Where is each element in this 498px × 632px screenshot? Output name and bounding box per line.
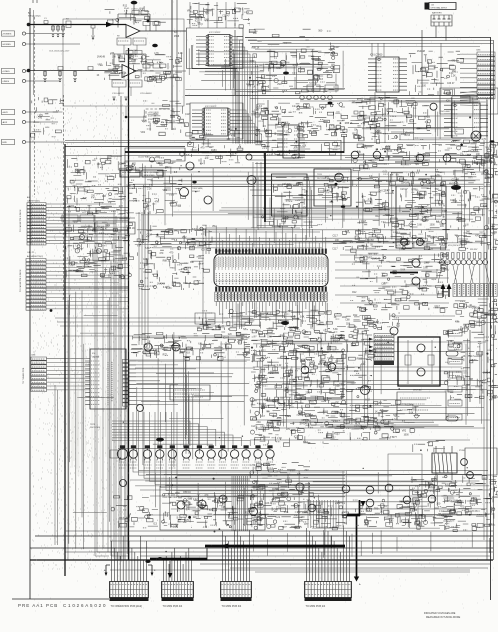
svg-text:SPK(2)-CN(2): SPK(2)-CN(2) <box>28 16 41 18</box>
svg-text:4.7K: 4.7K <box>157 62 162 64</box>
svg-text:C117: C117 <box>316 511 322 513</box>
svg-text:R153: R153 <box>336 129 342 131</box>
svg-text:R77: R77 <box>202 138 207 140</box>
svg-text:C117: C117 <box>276 508 282 510</box>
svg-text:4.7K: 4.7K <box>122 258 127 260</box>
svg-text:2SC: 2SC <box>145 348 150 350</box>
svg-text:C23 47: C23 47 <box>230 154 238 156</box>
svg-text:DECK A6: DECK A6 <box>413 389 422 392</box>
svg-text:R12: R12 <box>352 292 357 294</box>
svg-text:R153: R153 <box>405 135 411 137</box>
svg-text:C117: C117 <box>361 221 367 223</box>
svg-text:C23 0.0068J: C23 0.0068J <box>140 93 151 95</box>
svg-text:2SC: 2SC <box>479 232 484 234</box>
svg-text:C23 47: C23 47 <box>170 202 178 204</box>
svg-text:5.6K: 5.6K <box>285 416 290 418</box>
svg-text:C23 47: C23 47 <box>265 503 273 505</box>
svg-text:0.01: 0.01 <box>485 198 490 200</box>
svg-text:C117: C117 <box>369 358 375 360</box>
svg-text:10V: 10V <box>209 510 214 512</box>
svg-text:0.01: 0.01 <box>361 364 366 366</box>
svg-text:1N4148: 1N4148 <box>299 424 308 426</box>
svg-text:10V: 10V <box>285 494 290 496</box>
svg-text:OPTIONAL INPUT: OPTIONAL INPUT <box>431 7 448 10</box>
svg-text:1N4148: 1N4148 <box>491 202 498 204</box>
svg-text:5.6K: 5.6K <box>483 206 488 208</box>
svg-text:1N4148: 1N4148 <box>97 56 106 58</box>
svg-text:VR2: VR2 <box>187 11 192 13</box>
svg-text:1K: 1K <box>327 190 330 192</box>
svg-text:R77: R77 <box>163 354 168 356</box>
svg-text:4.7K: 4.7K <box>429 485 434 487</box>
svg-text:4.7K: 4.7K <box>392 419 397 421</box>
svg-text:TAPE SPEED: TAPE SPEED <box>144 174 156 177</box>
svg-text:2.2K: 2.2K <box>147 189 152 191</box>
svg-text:47K: 47K <box>303 207 308 209</box>
svg-text:0.01: 0.01 <box>383 171 388 173</box>
svg-text:VR2: VR2 <box>402 430 407 432</box>
svg-text:RY501: RY501 <box>459 450 466 452</box>
svg-text:47K: 47K <box>299 521 304 523</box>
svg-text:4.7K: 4.7K <box>368 199 373 201</box>
svg-text:TO MDS PCB 2/4: TO MDS PCB 2/4 <box>306 605 326 608</box>
svg-text:2SC: 2SC <box>304 470 309 472</box>
svg-text:5.6K: 5.6K <box>360 262 365 264</box>
svg-text:C45: C45 <box>38 117 43 119</box>
svg-text:+L5V (OFF): +L5V (OFF) <box>148 112 159 114</box>
svg-text:R12: R12 <box>384 518 389 520</box>
svg-text:0.22: 0.22 <box>365 399 370 401</box>
svg-text:CN4: CN4 <box>31 355 36 357</box>
svg-text:C88: C88 <box>274 509 279 511</box>
svg-text:2SC: 2SC <box>452 71 457 73</box>
svg-text:C88: C88 <box>397 240 402 242</box>
svg-text:C3 0.0047: C3 0.0047 <box>128 50 138 52</box>
svg-text:R77: R77 <box>357 99 362 101</box>
svg-text:R77: R77 <box>236 333 241 335</box>
svg-text:INDICATED VOLTAGES ARE: INDICATED VOLTAGES ARE <box>424 612 456 615</box>
svg-text:R12: R12 <box>319 503 324 505</box>
svg-text:5.6K: 5.6K <box>300 316 305 318</box>
svg-text:R153: R153 <box>405 404 411 406</box>
svg-text:R12: R12 <box>425 217 430 219</box>
svg-text:C23 47: C23 47 <box>473 142 481 144</box>
svg-text:C45: C45 <box>133 201 138 203</box>
svg-text:4.7K: 4.7K <box>396 245 401 247</box>
svg-text:C45: C45 <box>221 507 226 509</box>
svg-text:TR9: TR9 <box>439 515 444 517</box>
svg-text:1K: 1K <box>380 511 383 513</box>
svg-text:1N4148: 1N4148 <box>373 156 382 158</box>
svg-text:5.6K: 5.6K <box>126 185 131 187</box>
svg-text:R88 1K: R88 1K <box>318 364 326 366</box>
svg-text:R12: R12 <box>142 352 147 354</box>
svg-text:C88: C88 <box>345 320 350 322</box>
svg-text:R12: R12 <box>353 315 358 317</box>
svg-text:TR9: TR9 <box>119 56 124 58</box>
svg-text:R153: R153 <box>357 358 363 360</box>
svg-text:TO CASSETTE 2 DECK: TO CASSETTE 2 DECK <box>19 269 22 292</box>
svg-text:0.22: 0.22 <box>491 155 496 157</box>
svg-text:R153: R153 <box>280 336 286 338</box>
svg-text:C23 47: C23 47 <box>354 426 362 428</box>
svg-text:LA3300: LA3300 <box>92 356 100 359</box>
svg-text:R12: R12 <box>352 133 357 135</box>
svg-text:1000: 1000 <box>204 19 210 21</box>
svg-text:1K: 1K <box>334 317 337 319</box>
svg-text:C88: C88 <box>346 324 351 326</box>
svg-text:33K: 33K <box>329 202 334 204</box>
svg-text:R153: R153 <box>152 77 158 79</box>
svg-text:R88 1K: R88 1K <box>252 47 260 49</box>
svg-text:TO CASSETTE 1 DECK: TO CASSETTE 1 DECK <box>19 209 22 232</box>
svg-text:2.2K: 2.2K <box>173 527 178 529</box>
svg-text:R88 1K: R88 1K <box>486 229 494 231</box>
svg-text:R153: R153 <box>323 411 329 413</box>
svg-text:PRESET: PRESET <box>192 191 201 193</box>
svg-text:0.22: 0.22 <box>375 133 380 135</box>
svg-text:2SC: 2SC <box>257 422 262 424</box>
svg-text:C117: C117 <box>333 236 339 238</box>
svg-text:R153: R153 <box>334 433 340 435</box>
svg-text:1N4148: 1N4148 <box>453 501 462 503</box>
svg-text:1N4148: 1N4148 <box>492 497 498 499</box>
svg-text:VR2: VR2 <box>205 13 210 15</box>
svg-text:R153: R153 <box>92 230 98 232</box>
svg-text:1000: 1000 <box>436 216 442 218</box>
svg-text:R77: R77 <box>393 437 398 439</box>
svg-text:R12: R12 <box>245 512 250 514</box>
svg-text:A4 CASSETTE(2): A4 CASSETTE(2) <box>27 255 43 258</box>
svg-text:MUTING: MUTING <box>449 183 458 185</box>
svg-text:VR2: VR2 <box>98 64 103 66</box>
svg-text:1000: 1000 <box>310 416 316 418</box>
svg-text:PRE AA1 PCB: PRE AA1 PCB <box>18 603 58 608</box>
svg-text:TR9: TR9 <box>415 164 420 166</box>
svg-text:IC6 LC7800: IC6 LC7800 <box>370 55 383 57</box>
svg-text:C23 47: C23 47 <box>447 83 455 85</box>
svg-text:C117: C117 <box>185 114 191 116</box>
svg-text:C117: C117 <box>147 235 153 237</box>
svg-text:1N4148: 1N4148 <box>417 51 426 53</box>
svg-text:5.6K: 5.6K <box>145 248 150 250</box>
svg-text:R12: R12 <box>375 216 380 218</box>
svg-text:TR9: TR9 <box>134 170 139 172</box>
svg-text:C88: C88 <box>365 240 370 242</box>
svg-text:TR9: TR9 <box>264 109 269 111</box>
svg-text:5.6K: 5.6K <box>356 389 361 391</box>
svg-text:-AUX: -AUX <box>2 121 8 124</box>
svg-text:0.01: 0.01 <box>292 56 297 58</box>
svg-text:4.7K: 4.7K <box>250 465 255 467</box>
svg-text:C23 47: C23 47 <box>222 16 230 18</box>
svg-text:1000: 1000 <box>404 435 410 437</box>
svg-text:VR2: VR2 <box>163 190 168 192</box>
svg-text:TR9: TR9 <box>374 508 379 510</box>
svg-text:1N4148: 1N4148 <box>300 195 309 197</box>
svg-text:0.01: 0.01 <box>449 73 454 75</box>
svg-text:C64 0.0047: C64 0.0047 <box>440 111 451 113</box>
svg-text:TR73: TR73 <box>90 424 96 426</box>
svg-text:C117: C117 <box>370 161 376 163</box>
svg-text:VR2: VR2 <box>260 426 265 428</box>
svg-text:1K: 1K <box>450 341 453 343</box>
svg-text:47K: 47K <box>455 321 460 323</box>
svg-text:C117: C117 <box>442 211 448 213</box>
svg-text:C88: C88 <box>381 283 386 285</box>
svg-text:47K: 47K <box>181 269 186 271</box>
svg-text:C45: C45 <box>298 414 303 416</box>
svg-text:R88 1K: R88 1K <box>439 244 447 246</box>
svg-text:0.01: 0.01 <box>413 499 418 501</box>
svg-text:R12: R12 <box>122 238 127 240</box>
svg-text:5.6K: 5.6K <box>267 336 272 338</box>
svg-text:C117: C117 <box>256 108 262 110</box>
svg-text:47K: 47K <box>302 146 307 148</box>
svg-text:C133 10/16: C133 10/16 <box>168 524 179 526</box>
svg-text:2SC: 2SC <box>357 307 362 309</box>
svg-text:1N4148: 1N4148 <box>401 183 410 185</box>
svg-text:2SC: 2SC <box>370 121 375 123</box>
svg-text:VR2: VR2 <box>262 407 267 409</box>
svg-text:33K: 33K <box>190 262 195 264</box>
svg-text:R153: R153 <box>166 288 172 290</box>
svg-text:TO TUNER PCB: TO TUNER PCB <box>23 367 25 384</box>
svg-text:1K: 1K <box>352 102 355 104</box>
svg-text:5.6K: 5.6K <box>388 151 393 153</box>
svg-text:1N4148: 1N4148 <box>372 259 381 261</box>
svg-text:+HOMES: +HOMES <box>2 34 12 36</box>
svg-text:4.7K: 4.7K <box>481 139 486 141</box>
svg-text:C88: C88 <box>369 240 374 242</box>
svg-text:1000: 1000 <box>296 183 302 185</box>
svg-text:R88 1K: R88 1K <box>127 228 135 230</box>
svg-text:1K: 1K <box>469 305 472 307</box>
svg-text:C23 47: C23 47 <box>470 511 478 513</box>
svg-text:+LINES: +LINES <box>2 71 10 73</box>
svg-text:VR2: VR2 <box>479 382 484 384</box>
svg-text:2.2K: 2.2K <box>451 76 456 78</box>
svg-text:IC5 HD404918 SYSTEM CONTROL: IC5 HD404918 SYSTEM CONTROL <box>216 251 254 253</box>
svg-text:TR86 MM(P.B): TR86 MM(P.B) <box>138 152 151 154</box>
svg-text:BATTERY: BATTERY <box>432 12 442 15</box>
svg-text:33K: 33K <box>112 57 117 59</box>
svg-text:TAPE 2 1/2: TAPE 2 1/2 <box>122 171 132 174</box>
svg-text:TR98 2SA1740S: TR98 2SA1740S <box>162 496 178 499</box>
svg-text:2.2K: 2.2K <box>386 147 391 149</box>
svg-text:33K: 33K <box>449 501 454 503</box>
svg-text:2SC: 2SC <box>306 393 311 395</box>
svg-text:-LINES: -LINES <box>2 81 10 83</box>
svg-text:C45: C45 <box>77 173 82 175</box>
svg-text:C45: C45 <box>413 480 418 482</box>
svg-text:C5 R11: C5 R11 <box>131 9 139 11</box>
svg-text:C23 47: C23 47 <box>82 211 90 213</box>
svg-text:C88: C88 <box>469 379 474 381</box>
svg-text:10V: 10V <box>97 164 102 166</box>
svg-text:TR83 TAPE: TR83 TAPE <box>192 187 203 190</box>
svg-text:COL.03.01.02 = 03.7: COL.03.01.02 = 03.7 <box>49 51 70 53</box>
svg-text:5.6K: 5.6K <box>259 347 264 349</box>
svg-text:TAPE 1 (NORMAL): TAPE 1 (NORMAL) <box>144 171 160 174</box>
svg-text:10V: 10V <box>186 104 191 106</box>
svg-text:5.6K: 5.6K <box>128 55 133 57</box>
svg-text:C45: C45 <box>376 130 381 132</box>
svg-text:R77: R77 <box>283 527 288 529</box>
svg-text:R77: R77 <box>411 189 416 191</box>
svg-text:VR2: VR2 <box>174 231 179 233</box>
svg-text:R88 1K: R88 1K <box>212 501 220 503</box>
svg-text:R95 R97: R95 R97 <box>470 249 477 251</box>
svg-text:10V: 10V <box>153 123 158 125</box>
svg-text:1K: 1K <box>253 86 256 88</box>
svg-text:5.6K: 5.6K <box>401 270 406 272</box>
svg-text:1N4148: 1N4148 <box>472 308 481 310</box>
svg-text:CAL P1: CAL P1 <box>27 251 35 254</box>
svg-text:ATX 3.7M: ATX 3.7M <box>458 489 461 498</box>
svg-text:R153: R153 <box>278 185 284 187</box>
svg-text:1000: 1000 <box>143 259 149 261</box>
svg-text:47K: 47K <box>229 130 234 132</box>
svg-text:5.6K: 5.6K <box>333 329 338 331</box>
svg-text:0.22: 0.22 <box>277 365 282 367</box>
svg-text:C23 47: C23 47 <box>382 191 390 193</box>
svg-text:R88 1K: R88 1K <box>419 304 427 306</box>
svg-text:0.01: 0.01 <box>423 220 428 222</box>
svg-text:1000: 1000 <box>430 225 436 227</box>
svg-text:1N4148: 1N4148 <box>483 372 492 374</box>
svg-text:TR9: TR9 <box>105 226 110 228</box>
svg-text:R12: R12 <box>483 479 488 481</box>
svg-text:C117: C117 <box>435 306 441 308</box>
svg-text:10V: 10V <box>200 508 205 510</box>
svg-text:C117: C117 <box>394 227 400 229</box>
svg-text:C23 47: C23 47 <box>259 404 267 406</box>
svg-text:1K: 1K <box>463 356 466 358</box>
svg-text:MEASURED IN TUNING MODE: MEASURED IN TUNING MODE <box>426 616 461 619</box>
svg-text:C23 47: C23 47 <box>417 195 425 197</box>
svg-text:C23 47: C23 47 <box>282 184 290 186</box>
svg-text:1N4148: 1N4148 <box>289 327 298 329</box>
svg-text:10V: 10V <box>440 226 445 228</box>
svg-text:1K: 1K <box>407 293 410 295</box>
svg-text:R88 1K: R88 1K <box>183 492 191 494</box>
svg-text:C117: C117 <box>279 404 285 406</box>
svg-text:C23 47: C23 47 <box>274 472 282 474</box>
svg-text:5.6K: 5.6K <box>409 413 414 415</box>
svg-text:5.6K: 5.6K <box>423 268 428 270</box>
svg-text:-HOMES: -HOMES <box>2 44 11 46</box>
svg-text:47K: 47K <box>264 399 269 401</box>
svg-text:10V: 10V <box>286 429 291 431</box>
svg-text:5.6K: 5.6K <box>417 224 422 226</box>
svg-text:C45: C45 <box>215 326 220 328</box>
svg-text:C13 0.0022J: C13 0.0022J <box>112 93 123 95</box>
svg-text:4558: 4558 <box>174 36 180 38</box>
svg-text:2.2K: 2.2K <box>290 344 295 346</box>
svg-text:2.2K: 2.2K <box>281 223 286 225</box>
svg-text:(P.MO): (P.MO) <box>148 119 155 121</box>
svg-text:R88 1K: R88 1K <box>345 123 353 125</box>
svg-text:VR2: VR2 <box>165 167 170 169</box>
svg-text:C23 47: C23 47 <box>400 189 408 191</box>
svg-text:C23 47: C23 47 <box>334 339 342 341</box>
svg-text:0.22: 0.22 <box>276 517 281 519</box>
svg-text:C45: C45 <box>250 61 255 63</box>
svg-text:1000: 1000 <box>473 157 479 159</box>
svg-text:TR9: TR9 <box>161 125 166 127</box>
svg-text:1000: 1000 <box>119 164 125 166</box>
svg-text:TR9: TR9 <box>251 115 256 117</box>
svg-text:0.22: 0.22 <box>335 385 340 387</box>
svg-text:1N4148: 1N4148 <box>183 283 192 285</box>
svg-text:4.7K: 4.7K <box>176 63 181 65</box>
svg-text:1000: 1000 <box>69 206 75 208</box>
svg-text:1000: 1000 <box>424 263 430 265</box>
svg-text:C23 47: C23 47 <box>452 179 460 181</box>
svg-text:R22 R24: R22 R24 <box>309 83 318 85</box>
svg-text:R153: R153 <box>96 211 102 213</box>
svg-text:2SC1740S: 2SC1740S <box>90 427 101 429</box>
svg-text:0.22: 0.22 <box>251 426 256 428</box>
svg-text:VR2: VR2 <box>212 226 217 228</box>
svg-text:5.6K: 5.6K <box>276 68 281 70</box>
svg-text:10V: 10V <box>362 145 367 147</box>
svg-text:C23 47: C23 47 <box>492 397 498 399</box>
svg-text:C88: C88 <box>179 353 184 355</box>
svg-text:1000: 1000 <box>175 493 181 495</box>
svg-text:C117: C117 <box>332 249 338 251</box>
svg-text:4.7K: 4.7K <box>435 175 440 177</box>
svg-text:1K: 1K <box>370 245 373 247</box>
svg-text:2SC: 2SC <box>277 84 282 86</box>
svg-text:4.7K: 4.7K <box>154 53 159 55</box>
svg-text:10V: 10V <box>370 418 375 420</box>
svg-text:0.22: 0.22 <box>193 499 198 501</box>
svg-text:R153: R153 <box>211 150 217 152</box>
svg-text:R153: R153 <box>412 510 418 512</box>
svg-text:CN6: CN6 <box>476 50 481 52</box>
svg-text:0.047 BX: 0.047 BX <box>148 116 157 118</box>
svg-text:2SC: 2SC <box>354 371 359 373</box>
svg-text:VR2: VR2 <box>182 237 187 239</box>
svg-text:TR9: TR9 <box>247 85 252 87</box>
svg-text:2SC1740S: 2SC1740S <box>317 178 327 180</box>
svg-text:IC2 TC9132P: IC2 TC9132P <box>209 32 221 34</box>
svg-text:TR9: TR9 <box>326 377 331 379</box>
svg-text:1K: 1K <box>388 422 391 424</box>
svg-text:TR9: TR9 <box>254 481 259 483</box>
svg-text:1K: 1K <box>344 523 347 525</box>
svg-text:2SC: 2SC <box>265 464 270 466</box>
svg-text:VR2: VR2 <box>141 132 146 134</box>
svg-text:1K: 1K <box>97 75 100 77</box>
svg-text:47K: 47K <box>117 268 122 270</box>
svg-text:R77: R77 <box>412 408 417 410</box>
svg-text:33K: 33K <box>420 214 425 216</box>
svg-text:R12: R12 <box>471 484 476 486</box>
svg-text:5.6K: 5.6K <box>284 512 289 514</box>
svg-text:C23 47: C23 47 <box>335 361 343 363</box>
svg-text:VOL (18CH 2.7V): VOL (18CH 2.7V) <box>448 245 464 247</box>
svg-text:0.22: 0.22 <box>190 247 195 249</box>
svg-text:4.7K: 4.7K <box>417 495 422 497</box>
svg-text:R77: R77 <box>254 113 259 115</box>
svg-text:TR9: TR9 <box>427 483 432 485</box>
svg-text:10V: 10V <box>307 350 312 352</box>
svg-text:C23 47: C23 47 <box>301 420 309 422</box>
svg-text:1K: 1K <box>160 68 163 70</box>
